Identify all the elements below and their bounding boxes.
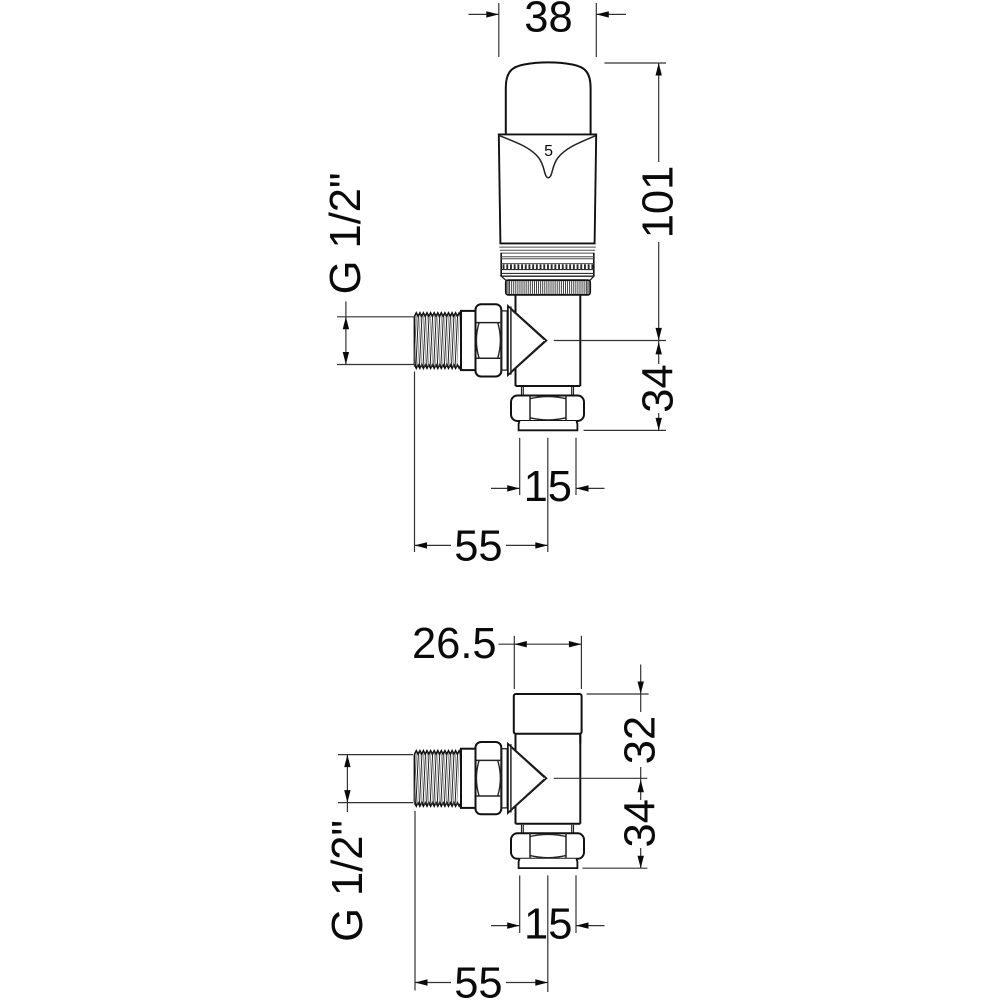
valve 2 body tube [516,734,581,824]
svg-text:G 1/2": G 1/2" [322,173,370,295]
valve 1 tail piece [519,421,578,430]
G 1/2 leader line lower [337,364,414,366]
dimension 55 extension line left [414,372,416,553]
valve 2 tailpipe neck [522,825,574,834]
dimension 32 line stub lower [640,767,642,778]
valve 2 thread collar [461,749,476,808]
head castellated ring [501,264,594,276]
head rib rings [499,247,596,276]
valve 2 tail piece [519,859,578,868]
dimension 55 line with arrows [415,542,548,548]
knurled locking ring [506,280,590,295]
dimension 15 bottom arrow left [491,922,520,928]
svg-text:55: 55 [454,959,502,1000]
svg-text:15: 15 [524,463,572,511]
valve 1 compression nut [511,396,584,422]
dimension 34 bottom line lower with arrow [638,848,644,868]
G 1/2 arrows bottom figure [344,755,350,812]
dimension 34 extension line bottom [584,429,667,431]
dimension 34 bottom extension line [582,867,647,869]
dimension 34 line lower with arrow [656,413,662,430]
valve 1 spacer ring [502,311,507,370]
svg-text:101: 101 [635,166,683,239]
dimension 32 line stub upper [640,694,642,712]
dimension 38 extension line right [595,3,597,57]
valve 1 hex nut [476,304,502,376]
dimension 15 arrow left [491,485,520,491]
svg-text:38: 38 [524,0,572,42]
dimension 38 extension line left [498,3,500,57]
valve 2 port centreline [554,777,648,779]
thermostatic head cap dome [506,62,591,134]
valve 1 cone seat [508,306,547,375]
valve 2 cone seat [508,744,547,813]
valve 1 port centreline [554,340,666,342]
valve 2 compression nut [511,833,584,859]
dimension 15 bottom extension lines [520,875,576,992]
svg-text:55: 55 [454,522,502,570]
valve 2 cap [514,694,582,734]
thermostatic head skirt [499,134,596,243]
svg-text:34: 34 [617,799,665,847]
dimension 15 bottom arrow right [576,922,605,928]
dimension 55 bottom extension line left [414,811,416,991]
svg-text:15: 15 [524,901,572,949]
dimension 101 line upper with arrow [656,63,662,162]
dimension 34 line upper with arrow [656,340,662,364]
valve 1 thread collar [461,311,476,370]
dimension 32 extension line top [587,693,649,695]
G 1/2 leader line upper [337,316,414,318]
dimension 15 arrow right [576,485,605,491]
svg-text:34: 34 [635,364,683,412]
dimension 34 bottom line upper with arrow [638,778,644,800]
dimension 26.5 extension lines [514,636,581,689]
head skirt wave curve [499,135,596,177]
dimension 55 bottom line with arrows [415,979,548,985]
svg-text:26.5: 26.5 [412,620,497,668]
dimension 38 arrow left [469,11,499,17]
G 1/2 leader line lower bottom figure [338,802,413,804]
valve 1 body tube [516,295,581,386]
valve 2 hex nut [476,742,502,814]
svg-text:G 1/2": G 1/2" [324,820,372,942]
dimension 26.5 line with arrows [498,641,581,647]
svg-text:5: 5 [544,143,553,160]
dimension 32 arrow top [638,665,644,695]
G 1/2 arrow stem [343,302,349,365]
dimension 101 extension line top [605,62,667,64]
head shoulder [501,276,594,280]
valve 1 tailpipe neck [522,387,574,396]
valve 1 male thread G1/2 [414,313,461,368]
valve 2 spacer ring [502,749,507,808]
valve 2 body upper [516,734,581,744]
svg-text:32: 32 [617,716,665,764]
valve 2 male thread G1/2 [414,751,461,806]
G 1/2 leader line upper bottom figure [338,754,413,756]
dimension 38 arrow right [596,11,626,17]
dimension 15 extension lines [520,438,576,552]
dimension 101 line lower with arrow [656,242,662,340]
